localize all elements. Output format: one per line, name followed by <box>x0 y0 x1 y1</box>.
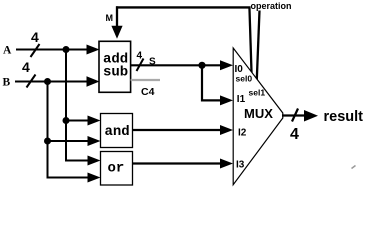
arrowhead M into add/sub top <box>111 26 122 39</box>
svg-text:I1: I1 <box>237 94 246 105</box>
and gate box <box>101 114 133 148</box>
svg-text:4: 4 <box>290 126 299 143</box>
wire input B <box>15 81 88 83</box>
bus slash B <box>27 75 36 88</box>
stray gray scratch mark <box>352 166 356 169</box>
svg-text:4: 4 <box>137 50 143 61</box>
wire B tap to and input 2 <box>48 140 89 142</box>
svg-text:M: M <box>106 13 114 23</box>
carry out C4 gray stub <box>131 79 160 81</box>
multiplexer MUX body <box>233 48 283 185</box>
svg-text:and: and <box>105 124 130 140</box>
svg-text:MUX: MUX <box>244 106 273 121</box>
svg-text:4: 4 <box>22 59 30 75</box>
svg-text:result: result <box>324 109 364 125</box>
svg-text:C4: C4 <box>141 86 155 98</box>
wire input A <box>16 49 88 51</box>
arrowhead into or input 2 <box>88 173 101 183</box>
arrowhead into and input 2 <box>88 136 101 146</box>
svg-text:sel1: sel1 <box>249 87 266 97</box>
wire A vertical tap down to and/or <box>66 50 89 161</box>
svg-text:I3: I3 <box>236 160 245 171</box>
arrowhead into MUX I0 <box>220 60 233 70</box>
junction A to and gate <box>63 117 70 124</box>
wire B vertical tap down to and/or <box>48 82 89 178</box>
arrowhead into and input 1 <box>88 116 101 126</box>
wire A tap to and input 1 <box>66 120 89 122</box>
junction node S split <box>198 62 205 69</box>
svg-text:or: or <box>108 161 125 177</box>
wire M vertical into add/sub <box>116 6 118 27</box>
bus slash A <box>31 44 40 57</box>
wire top horizontal from M to operation <box>116 6 250 8</box>
bus slash result <box>292 109 298 122</box>
svg-text:4: 4 <box>31 29 39 45</box>
svg-text:operation: operation <box>251 1 292 11</box>
svg-text:S: S <box>149 56 156 67</box>
arrowhead into MUX I1 <box>220 95 233 105</box>
junction B to and gate <box>44 138 51 145</box>
adder/subtractor unit box <box>99 41 131 92</box>
arrowhead B into add/sub <box>87 76 100 86</box>
wire or output to MUX I3 <box>133 162 222 164</box>
or gate box <box>101 152 133 186</box>
wire MUX output <box>282 114 306 116</box>
wire S down to MUX I1 <box>202 65 221 100</box>
svg-text:sub: sub <box>103 64 128 80</box>
bus slash S <box>137 59 144 72</box>
junction node B tap <box>44 78 51 85</box>
arrowhead into or input 1 <box>88 156 101 166</box>
arrowhead A into add/sub <box>87 45 100 55</box>
wire operation select line sel0 vertical <box>249 7 251 76</box>
svg-text:I2: I2 <box>238 128 247 139</box>
svg-text:A: A <box>3 44 12 56</box>
svg-text:sel0: sel0 <box>236 74 253 84</box>
wire operation select line sel1 vertical <box>257 11 260 88</box>
arrowhead result <box>304 110 318 122</box>
junction node A tap <box>63 46 70 53</box>
wire S output of add/sub to MUX I0 <box>131 64 221 66</box>
arrowhead into MUX I2 <box>220 125 233 135</box>
arrowhead into MUX I3 <box>220 159 233 169</box>
wire and output to MUX I2 <box>133 129 222 131</box>
svg-text:B: B <box>3 76 11 88</box>
